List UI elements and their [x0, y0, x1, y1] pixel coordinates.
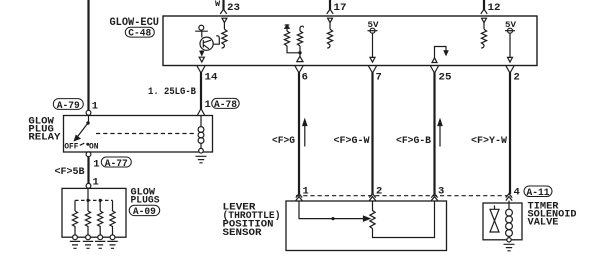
svg-text:A-77: A-77: [105, 159, 128, 170]
svg-text:SENSOR: SENSOR: [223, 227, 263, 239]
male arrow sensor pin3: [431, 194, 437, 201]
wire pin7 to sensor pin2: [371, 73, 373, 195]
svg-text:3: 3: [438, 186, 444, 198]
svg-text:C-48: C-48: [128, 29, 151, 40]
junction dot: [331, 217, 334, 220]
male arrow sensor pin2: [369, 194, 375, 201]
node triangle above pin14: [199, 57, 204, 62]
node triangle above pin2: [508, 57, 513, 62]
resistor R1 (pin23 base resistor): [222, 29, 227, 45]
wire relay to glow plugs: [87, 157, 89, 184]
svg-text:12: 12: [488, 2, 501, 14]
glow plug bus wiring: [75, 188, 113, 211]
connector circle on relay bottom left: [86, 152, 91, 157]
svg-text:1: 1: [205, 99, 211, 111]
valve box (TIMER SOLENOID VALVE): [483, 203, 522, 240]
connector label A-78: [212, 98, 240, 111]
node triangle under pin23: [222, 18, 227, 22]
male arrow into relay: [198, 109, 205, 116]
pin25 fork: [431, 66, 439, 73]
svg-text:A-09: A-09: [133, 207, 156, 218]
harness dashed line sensor connector: [296, 195, 508, 197]
svg-text:A-78: A-78: [214, 100, 237, 111]
wire: [483, 23, 485, 30]
sensor box (LEVER POSITION SENSOR): [286, 201, 447, 251]
sensor wiper wire from pin1: [299, 201, 364, 219]
svg-text:1: 1: [92, 100, 98, 112]
svg-text:<F>5B: <F>5B: [55, 166, 86, 178]
resistor R4 (right of pin6 pair): [297, 26, 303, 46]
hook at resistor R1 bottom: [222, 45, 225, 48]
svg-text:A-79: A-79: [57, 101, 80, 112]
wire pin12 stub: [483, 0, 485, 10]
pin2 fork: [506, 66, 514, 73]
wire: [223, 23, 225, 30]
wire pin2 to valve pin4: [509, 73, 511, 195]
pin7 fork: [369, 66, 377, 73]
svg-text:23: 23: [227, 2, 240, 14]
connector label A-77: [101, 157, 131, 170]
connector circles on box bottom: [73, 235, 78, 240]
svg-text:2: 2: [376, 186, 382, 198]
glow plug heater elements x4: [72, 211, 77, 235]
hook at resistor R2 bottom: [327, 45, 330, 48]
connector fork pin12: [481, 9, 487, 14]
dashed bus across plug tops: [75, 199, 113, 201]
svg-text:OFF: OFF: [64, 141, 78, 151]
resistor R2 (pin17): [327, 29, 332, 45]
junction dot: [298, 51, 301, 54]
wire pin25 to sensor pin3: [433, 73, 435, 195]
svg-text:1: 1: [93, 158, 99, 170]
svg-text:14: 14: [205, 72, 218, 84]
svg-text:<F>Y-W: <F>Y-W: [471, 135, 508, 147]
connector circle on relay bottom right: [199, 148, 204, 153]
wire pin14 to relay: [200, 73, 202, 110]
ground below relay coil: [196, 156, 207, 163]
relay box (GLOW PLUG RELAY): [64, 116, 213, 153]
wiper arrowhead: [364, 216, 370, 221]
pin25 internal bracket: [432, 47, 448, 63]
svg-text:7: 7: [376, 72, 382, 84]
wire pot low side to pin3: [373, 201, 435, 238]
ECU box U1 (GLOW-ECU): [163, 16, 537, 66]
relay coil L1: [198, 115, 204, 148]
glow plugs box: [62, 188, 126, 237]
grounds below glow plugs: [70, 241, 80, 248]
svg-text:RELAY: RELAY: [28, 131, 61, 143]
connector fork pin23: [220, 9, 226, 14]
transistor Q1: [200, 37, 213, 50]
direction arrow: [303, 120, 307, 147]
resistor R3 (left of pin6 pair): [284, 25, 289, 46]
connector circle on relay top: [86, 110, 91, 115]
resistor R5 (pin12): [481, 29, 486, 45]
dashed link switch to coil: [96, 133, 196, 135]
male arrow sensor pin1: [296, 194, 302, 201]
5V supply over pin2: [505, 20, 517, 57]
base wire with hook: [213, 36, 219, 44]
node triangle above pin6: [297, 56, 303, 61]
pin6 fork: [295, 66, 303, 73]
5V supply over pin7: [368, 20, 380, 57]
sensor potentiometer resistor: [370, 201, 375, 229]
svg-text:W: W: [215, 0, 221, 9]
svg-text:6: 6: [302, 72, 308, 84]
svg-text:1. 25LG-B: 1. 25LG-B: [148, 86, 197, 98]
svg-text:A-11: A-11: [527, 188, 550, 199]
direction arrow: [438, 120, 442, 147]
connector circle valve bottom: [507, 238, 511, 242]
wire joining R3 R4 to pin6 node: [287, 46, 300, 56]
wire: [329, 23, 331, 30]
emitter wire with arrow: [201, 50, 203, 55]
svg-text:2: 2: [514, 72, 520, 84]
svg-text:4: 4: [514, 186, 520, 198]
connector label A-11: [524, 186, 552, 199]
collector bar and circle: [195, 31, 208, 37]
svg-text:25: 25: [439, 72, 452, 84]
switch inside relay: [64, 115, 98, 151]
node triangle under pin12: [482, 18, 487, 22]
connector label C-48: [125, 27, 154, 39]
wire pin23 stub: [222, 0, 224, 10]
wire pin17 stub: [329, 0, 331, 10]
wire battery feed to relay: [87, 0, 89, 111]
connector circle glow plugs top: [86, 183, 91, 188]
ground below valve: [504, 244, 515, 251]
svg-text:ON: ON: [89, 141, 99, 151]
valve symbol: [490, 206, 499, 233]
svg-text:<F>G: <F>G: [272, 135, 295, 147]
solenoid coil L2: [506, 201, 513, 238]
svg-text:1: 1: [303, 186, 309, 198]
connector label A-79: [53, 99, 83, 112]
svg-text:PLUGS: PLUGS: [131, 194, 160, 206]
node triangle above pin7: [370, 57, 375, 62]
pin14 fork: [197, 66, 205, 73]
connector fork pin17: [327, 9, 333, 14]
svg-text:17: 17: [334, 2, 347, 14]
wire pin6 to sensor pin1: [298, 73, 300, 195]
connector label A-09: [129, 205, 160, 218]
svg-text:VALVE: VALVE: [528, 217, 559, 229]
node triangle under pin17: [328, 18, 333, 22]
svg-text:<F>G-W: <F>G-W: [334, 135, 371, 147]
junction dots: [86, 199, 89, 202]
svg-text:<F>G-B: <F>G-B: [396, 135, 432, 147]
male arrow valve pin4: [506, 194, 512, 201]
hook at resistor R5 bottom: [481, 45, 484, 48]
svg-text:1: 1: [93, 177, 99, 189]
